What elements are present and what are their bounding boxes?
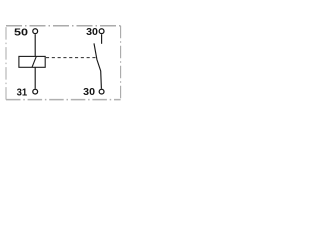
terminal 30 top [99,29,104,34]
coil slash [32,56,36,67]
relay case outline right side [120,26,122,100]
switch blade [94,43,101,88]
terminal 50 [33,29,38,34]
mechanical link (dashed) coil to switch [46,57,96,59]
relay case outline left side [5,26,7,100]
svg-text:31: 31 [17,87,28,99]
relay coil K1 (box) [19,56,45,67]
svg-text:30: 30 [83,86,95,98]
wire coil to terminal 31 [34,67,36,88]
terminal 31 [33,89,38,94]
terminal 30 bottom [99,89,104,94]
relay case outline (dash-dot border) top side [6,25,121,27]
wire terminal 30 fixed contact [101,34,103,44]
relay case outline bottom side [6,99,121,101]
svg-text:30: 30 [86,26,98,38]
svg-text:50: 50 [14,27,28,39]
wire terminal 50 to coil [34,34,36,56]
